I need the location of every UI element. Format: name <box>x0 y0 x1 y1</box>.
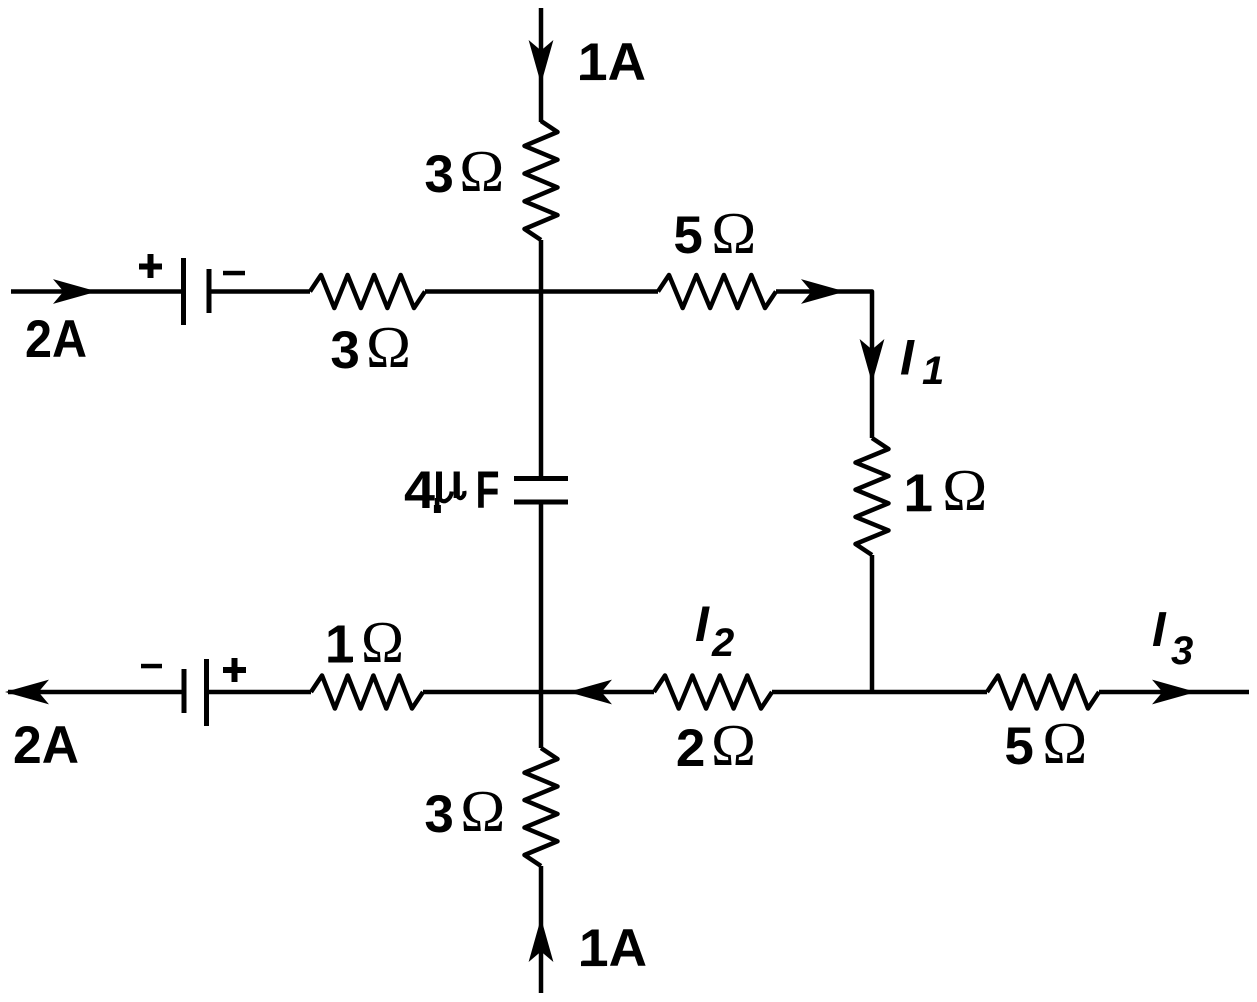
resistor 1ohm right vertical <box>856 438 889 555</box>
arrow 1A bottom (up) <box>529 918 554 962</box>
resistor 1ohm bottom-left horizontal <box>311 676 423 709</box>
wire corner to I1 branch <box>776 292 872 439</box>
svg-text:Ω: Ω <box>459 138 504 204</box>
battery V2 positive plate <box>204 659 209 726</box>
svg-text:Ω: Ω <box>366 314 411 380</box>
battery V1 positive plate <box>181 258 186 325</box>
capacitor C1 top plate <box>514 476 568 481</box>
svg-text:Ω: Ω <box>711 712 756 778</box>
svg-text:1: 1 <box>922 349 944 393</box>
arrow 2A top-left (right) <box>53 279 97 304</box>
wire bottom-right output <box>1099 690 1249 695</box>
resistor 3ohm left horizontal <box>310 275 425 308</box>
svg-text:3: 3 <box>1171 629 1193 673</box>
minus sign battery V2 <box>141 664 162 669</box>
wire I1 branch to node C <box>870 555 875 694</box>
wire battery V1 to resistor <box>209 289 310 294</box>
wire node C horizontal <box>772 690 987 695</box>
svg-text:1A: 1A <box>579 919 647 978</box>
wire top vertical feed <box>539 8 544 122</box>
wire node B horizontal <box>423 690 654 695</box>
capacitor C1 bottom plate <box>514 500 568 505</box>
svg-text:2: 2 <box>676 719 705 778</box>
plus sign battery V2 <box>223 658 246 682</box>
svg-text:F: F <box>476 461 500 520</box>
svg-text:3: 3 <box>424 145 453 204</box>
battery V1 negative plate <box>207 269 212 313</box>
wire battery V2 to resistor <box>206 690 311 695</box>
svg-text:I: I <box>900 330 915 386</box>
resistor 3ohm top vertical <box>525 121 558 240</box>
resistor 3ohm bottom vertical <box>525 748 558 866</box>
label mu of 4uF <box>434 472 460 514</box>
battery V2 negative plate <box>182 669 187 713</box>
svg-text:Ω: Ω <box>711 200 756 266</box>
svg-text:2A: 2A <box>13 716 79 775</box>
resistor 5ohm top horizontal <box>658 275 776 308</box>
svg-text:1: 1 <box>325 615 354 674</box>
svg-text:5: 5 <box>1004 717 1033 776</box>
arrow I1 top (right, after 5ohm) <box>801 279 845 304</box>
svg-text:Ω: Ω <box>361 609 404 675</box>
wire node A horizontal <box>425 289 658 294</box>
arrow 1A top (down) <box>529 40 554 84</box>
svg-text:2: 2 <box>711 621 734 665</box>
wire bottom vertical feed <box>539 866 544 993</box>
wire center vertical upper (node A to capacitor) <box>539 240 544 476</box>
svg-text:2A: 2A <box>25 310 87 369</box>
svg-text:5: 5 <box>673 206 702 265</box>
svg-text:1: 1 <box>904 464 933 523</box>
resistor 5ohm bottom-right horizontal <box>987 676 1099 709</box>
wire top-left input <box>11 289 183 294</box>
svg-text:Ω: Ω <box>1042 710 1087 776</box>
svg-text:I: I <box>695 596 710 652</box>
svg-text:1A: 1A <box>578 33 646 92</box>
minus sign battery V1 <box>223 271 245 276</box>
svg-text:I: I <box>1152 603 1167 657</box>
wire bottom-left output <box>8 690 184 695</box>
arrow I1 (down) <box>860 339 885 383</box>
svg-text:3: 3 <box>330 321 359 380</box>
plus sign battery V1 <box>139 254 162 278</box>
svg-text:Ω: Ω <box>460 778 505 844</box>
svg-text:Ω: Ω <box>942 457 987 523</box>
svg-text:4: 4 <box>404 461 436 520</box>
arrow I2 (left) <box>568 680 612 705</box>
resistor 2ohm horizontal <box>654 676 772 709</box>
svg-text:3: 3 <box>424 785 453 844</box>
arrow I3 (right) <box>1152 680 1196 705</box>
arrow 2A bottom-left (left) <box>5 680 49 705</box>
wire center vertical lower (capacitor to node B) <box>539 502 544 748</box>
